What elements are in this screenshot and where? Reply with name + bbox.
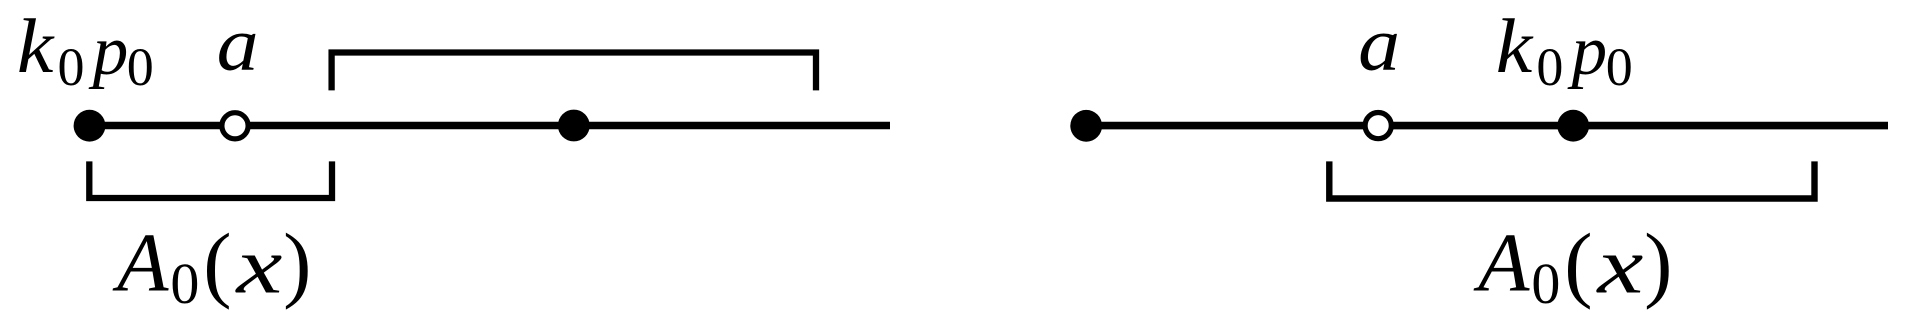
right label A0(x) (1473, 216, 1672, 315)
svg-text:a: a (1358, 3, 1400, 87)
svg-text:k: k (1496, 3, 1534, 89)
svg-text:k: k (17, 3, 55, 89)
left label A0(x) (112, 216, 311, 315)
right left filled endpoint (1070, 110, 1102, 142)
right bottom interval bracket A0(x) (1329, 161, 1814, 198)
svg-text:A: A (1473, 216, 1530, 309)
left number line (89, 122, 890, 130)
left label k0p0 (17, 3, 154, 97)
svg-text:p: p (1567, 12, 1608, 90)
svg-text:0: 0 (1606, 37, 1633, 97)
svg-text:x: x (1596, 222, 1643, 310)
right filled point k0p0 (1557, 110, 1589, 142)
svg-text:A: A (112, 216, 169, 309)
svg-text:0: 0 (170, 251, 199, 316)
svg-text:(: ( (1564, 217, 1592, 311)
svg-text:0: 0 (58, 37, 85, 97)
svg-text:p: p (88, 12, 129, 90)
svg-text:0: 0 (1536, 37, 1563, 97)
right number line (1086, 122, 1888, 130)
left middle filled point (558, 110, 590, 142)
left open point a (222, 113, 248, 139)
svg-text:): ) (283, 217, 311, 311)
svg-text:x: x (235, 222, 282, 310)
right open point a (1365, 113, 1391, 139)
svg-text:0: 0 (1531, 251, 1560, 316)
right label k0p0 (1496, 3, 1633, 97)
svg-text:(: ( (203, 217, 231, 311)
svg-text:a: a (217, 3, 259, 87)
left filled endpoint k0p0 (74, 110, 106, 142)
svg-text:0: 0 (127, 37, 154, 97)
left bottom interval bracket A0(x) (89, 161, 332, 198)
svg-text:): ) (1644, 217, 1672, 311)
left top interval bracket (332, 53, 816, 91)
